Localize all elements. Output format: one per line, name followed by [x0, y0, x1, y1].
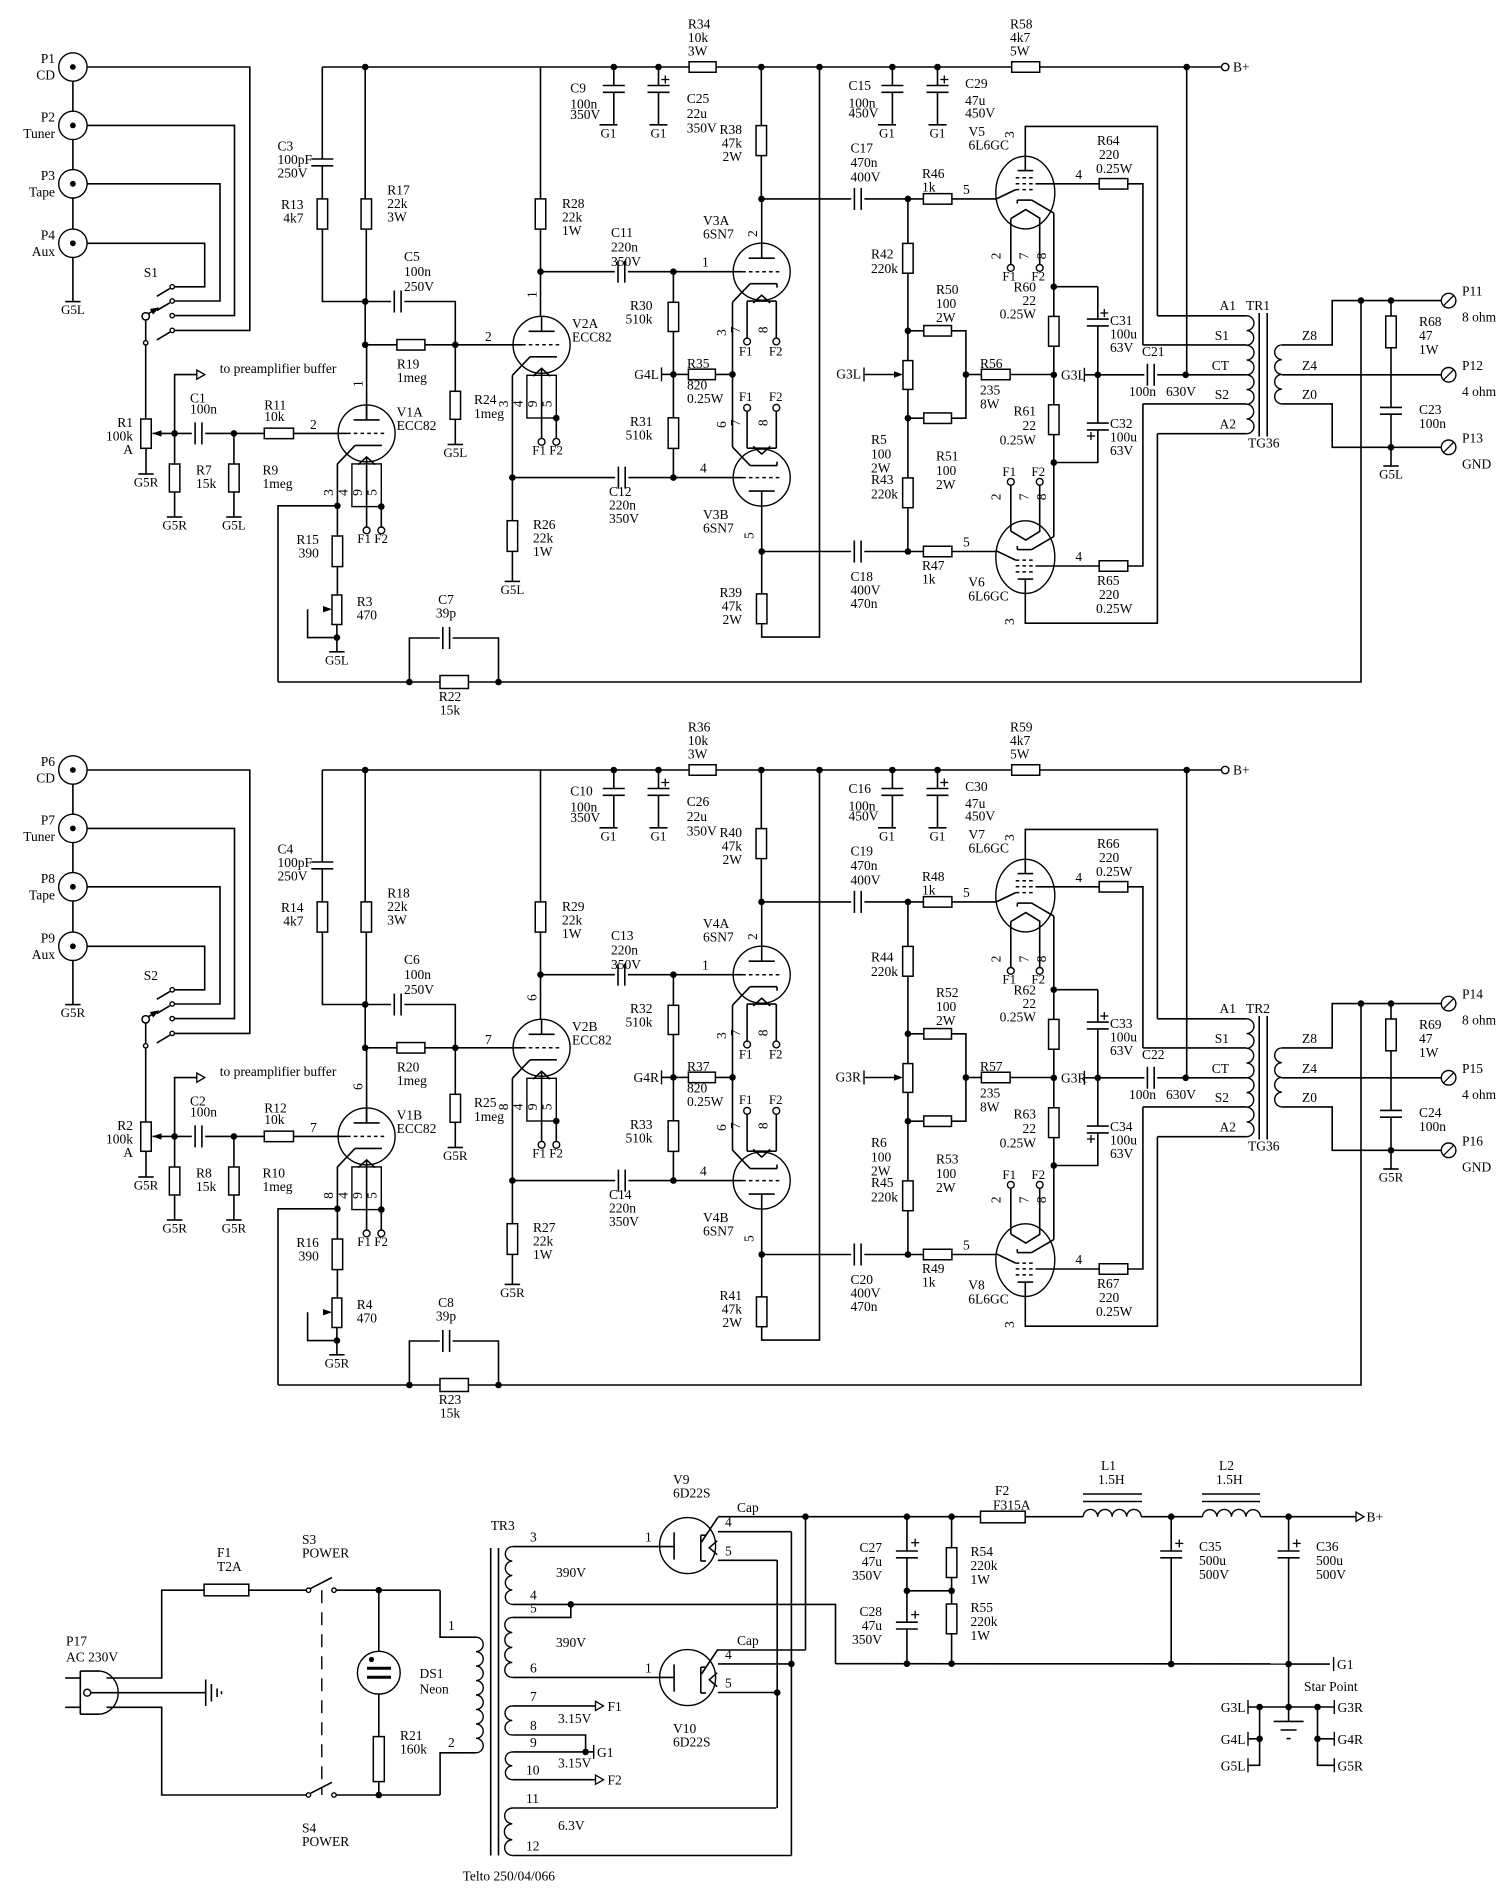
- svg-text:3: 3: [1002, 618, 1017, 625]
- tube V2B ECC82 second stage: [513, 1019, 570, 1076]
- resistor R32 510k: [672, 975, 674, 1006]
- connector P2 (Tuner input jack): [59, 111, 87, 139]
- svg-text:10k: 10k: [264, 409, 285, 424]
- svg-text:9: 9: [530, 1735, 537, 1750]
- svg-text:220: 220: [1099, 147, 1120, 162]
- svg-text:AC 230V: AC 230V: [66, 1650, 118, 1665]
- ground G5R (below volume pot): [138, 473, 153, 475]
- resistor R8 15k: [174, 1136, 176, 1167]
- junction V2 plate node: [537, 268, 544, 275]
- resistor R10 1meg: [233, 1136, 235, 1167]
- resistor R17 22k 3W: [364, 67, 366, 199]
- svg-text:7: 7: [485, 1032, 492, 1047]
- earth ground star point: [1274, 1720, 1304, 1722]
- wire plate V8 pin 3 to A2: [1025, 1137, 1157, 1327]
- svg-text:350V: 350V: [609, 511, 639, 526]
- svg-text:P16: P16: [1462, 1133, 1483, 1148]
- wire R13 bottom to C5 node: [322, 932, 365, 1004]
- capacitor C2 100n: [175, 1135, 192, 1137]
- inductor L1 1.5H choke: [1083, 1509, 1141, 1516]
- svg-text:2W: 2W: [723, 852, 743, 867]
- svg-text:C16: C16: [849, 781, 872, 796]
- resistor R59 4k7 5W: [1012, 765, 1040, 776]
- svg-text:R67: R67: [1097, 1276, 1120, 1291]
- tube V8 6L6GC lower output: [996, 1224, 1055, 1297]
- svg-text:9: 9: [525, 400, 540, 407]
- wire V10 heater 5: [718, 1692, 777, 1694]
- tube V2A ECC82 second stage: [513, 316, 570, 373]
- svg-text:8: 8: [756, 1029, 771, 1036]
- svg-text:Z0: Z0: [1302, 1090, 1317, 1105]
- svg-text:450V: 450V: [965, 106, 995, 121]
- capacitor C14 220n 350V: [512, 1180, 615, 1182]
- svg-text:220k: 220k: [871, 486, 898, 501]
- junction R19 left: [362, 342, 369, 349]
- resistor R48 1k: [923, 897, 952, 908]
- svg-text:400V: 400V: [851, 170, 881, 185]
- svg-text:Z4: Z4: [1302, 1061, 1317, 1076]
- resistor R19 1meg: [365, 344, 397, 346]
- svg-text:100n: 100n: [1419, 1119, 1446, 1134]
- svg-text:6: 6: [351, 1083, 366, 1090]
- tube V10 6D22S damper diode: [660, 1650, 716, 1706]
- svg-text:C21: C21: [1142, 344, 1165, 359]
- svg-text:ECC82: ECC82: [572, 330, 612, 345]
- svg-text:Tuner: Tuner: [23, 126, 55, 141]
- svg-text:G3L: G3L: [1061, 367, 1086, 382]
- svg-text:63V: 63V: [1110, 443, 1134, 458]
- svg-text:F1: F1: [739, 389, 753, 404]
- junction rail nodes: [362, 767, 369, 774]
- svg-text:350V: 350V: [570, 810, 600, 825]
- svg-text:2: 2: [989, 253, 1004, 260]
- svg-text:4k7: 4k7: [283, 914, 304, 929]
- svg-text:G3L: G3L: [836, 367, 861, 382]
- svg-text:P7: P7: [41, 812, 56, 827]
- svg-text:P8: P8: [41, 871, 56, 886]
- potentiometer R6 100 2W balance: [907, 1034, 909, 1064]
- svg-text:C6: C6: [404, 952, 420, 967]
- svg-text:F2: F2: [549, 442, 563, 457]
- resistor R12 10k grid stopper: [234, 1135, 264, 1137]
- capacitor C17 470n 400V: [762, 198, 852, 200]
- resistor R26 22k 1W: [511, 478, 513, 521]
- junction V3A plate node: [758, 899, 765, 906]
- svg-text:S1: S1: [1215, 1031, 1229, 1046]
- heater V1 pins 4 9 5: [352, 1167, 381, 1210]
- wire plate V7 pin 3 to A1: [1025, 829, 1157, 1018]
- wire cathodes tie V3A-V3B: [732, 302, 734, 447]
- svg-text:6L6GC: 6L6GC: [969, 841, 1010, 856]
- svg-text:100: 100: [936, 999, 957, 1014]
- resistor R49 1k: [923, 1249, 952, 1260]
- resistor R61 22 0.25W: [1053, 375, 1055, 405]
- svg-text:1meg: 1meg: [263, 476, 293, 491]
- svg-text:1meg: 1meg: [263, 1179, 293, 1194]
- wire V9 top cap: [702, 1517, 718, 1542]
- svg-text:Z4: Z4: [1302, 358, 1317, 373]
- resistor R56 235 8W: [966, 374, 982, 376]
- svg-text:P2: P2: [41, 109, 55, 124]
- svg-text:1W: 1W: [562, 223, 582, 238]
- tube V9 6D22S damper diode: [660, 1518, 716, 1574]
- resistor R30 510k: [672, 272, 674, 303]
- junction HT center tap: [568, 1601, 575, 1608]
- svg-text:1k: 1k: [922, 180, 936, 195]
- svg-text:10k: 10k: [264, 1112, 285, 1127]
- svg-text:3W: 3W: [688, 747, 708, 762]
- junction C31-C32 node: [1095, 372, 1102, 379]
- capacitor C33 100u 63V polarized: [1054, 989, 1098, 991]
- svg-text:S2: S2: [1215, 387, 1229, 402]
- svg-text:C13: C13: [611, 928, 634, 943]
- svg-text:470n: 470n: [851, 596, 878, 611]
- svg-text:630V: 630V: [1166, 1087, 1196, 1102]
- capacitor C26 22u 350V polarized: [658, 770, 660, 789]
- capacitor C24 100n zobel: [1380, 1109, 1402, 1111]
- svg-text:G5L: G5L: [443, 445, 467, 460]
- svg-text:G1: G1: [1337, 1657, 1354, 1672]
- svg-text:F1: F1: [739, 343, 753, 358]
- resistor R35 820: [673, 373, 688, 375]
- svg-text:6SN7: 6SN7: [703, 1224, 734, 1239]
- junction R50 node: [905, 1031, 912, 1038]
- wire cathode V5 pin 8: [1053, 213, 1055, 287]
- svg-text:R66: R66: [1097, 836, 1120, 851]
- svg-text:CT: CT: [1212, 358, 1230, 373]
- svg-text:P11: P11: [1462, 284, 1483, 299]
- svg-text:to preamplifier buffer: to preamplifier buffer: [220, 1064, 337, 1079]
- wire Z0: [1282, 404, 1442, 447]
- svg-text:1W: 1W: [1419, 342, 1439, 357]
- svg-text:250V: 250V: [278, 869, 308, 884]
- svg-text:R63: R63: [1013, 1107, 1036, 1122]
- resistor R27 22k 1W: [511, 1181, 513, 1224]
- terminal B+: [1187, 66, 1222, 68]
- svg-text:1.5H: 1.5H: [1216, 1472, 1243, 1487]
- svg-text:63V: 63V: [1110, 1043, 1134, 1058]
- svg-text:TG36: TG36: [1248, 1139, 1280, 1154]
- wire S2: [1143, 1106, 1247, 1108]
- heater V4B pins 7 8: [747, 1150, 776, 1152]
- ground G5R: [448, 1147, 463, 1149]
- connector P4 (Aux input jack): [59, 229, 87, 257]
- switch link dashed: [321, 1590, 323, 1795]
- svg-text:F1: F1: [1002, 1167, 1016, 1182]
- wire cathode V6 pin 8: [1053, 463, 1055, 537]
- svg-text:350V: 350V: [570, 107, 600, 122]
- capacitor C10 100n 350V: [613, 770, 615, 789]
- wire Z8: [1282, 301, 1442, 345]
- svg-text:P4: P4: [41, 227, 56, 242]
- connector P3 (Tape input jack): [59, 170, 87, 198]
- svg-text:B+: B+: [1233, 763, 1250, 778]
- svg-text:7: 7: [530, 1689, 537, 1704]
- junction G3L: [1256, 1704, 1263, 1711]
- svg-text:4 ohm: 4 ohm: [1462, 384, 1497, 399]
- svg-text:22: 22: [1023, 418, 1037, 433]
- net label G1 (C29): [929, 827, 947, 829]
- ground G5R: [1390, 1150, 1392, 1169]
- svg-text:5: 5: [540, 400, 555, 407]
- connector P7 (Tuner input jack): [59, 814, 87, 842]
- svg-text:100: 100: [936, 463, 957, 478]
- junction C27 top: [904, 1513, 911, 1520]
- svg-text:8 ohm: 8 ohm: [1462, 1013, 1497, 1028]
- svg-text:P9: P9: [41, 930, 56, 945]
- wire A2: [1157, 433, 1246, 435]
- resistor R40 47k 2W: [760, 770, 762, 829]
- junction phase splitter cathode tie: [729, 371, 736, 378]
- resistor R24 1meg: [454, 345, 456, 392]
- svg-text:5: 5: [530, 1600, 537, 1615]
- junction CT node: [1182, 1075, 1189, 1082]
- svg-text:C25: C25: [687, 91, 710, 106]
- svg-text:R53: R53: [936, 1151, 959, 1166]
- wire to TR3 pin 1: [440, 1590, 469, 1637]
- junction pot wiper tie: [334, 634, 341, 641]
- wire raw B+ rail: [806, 1516, 981, 1518]
- svg-text:6SN7: 6SN7: [703, 227, 734, 242]
- junction R56 left: [963, 371, 970, 378]
- junction neon top: [376, 1587, 383, 1594]
- svg-text:470n: 470n: [851, 858, 878, 873]
- svg-text:R54: R54: [971, 1544, 994, 1559]
- svg-text:R57: R57: [980, 1059, 1003, 1074]
- svg-text:P6: P6: [41, 754, 56, 769]
- capacitor C25 22u 350V polarized: [658, 67, 660, 86]
- potentiometer R2 100k volume: [141, 1122, 152, 1151]
- resistor R22 15k feedback: [409, 681, 440, 683]
- svg-text:C24: C24: [1419, 1105, 1442, 1120]
- svg-text:350V: 350V: [687, 824, 717, 839]
- resistor R34 10k 3W: [689, 62, 716, 73]
- svg-text:Z8: Z8: [1302, 1031, 1317, 1046]
- svg-text:C28: C28: [859, 1604, 882, 1619]
- svg-text:15k: 15k: [440, 703, 461, 718]
- svg-text:0.25W: 0.25W: [1000, 433, 1037, 448]
- svg-text:Neon: Neon: [420, 1682, 449, 1697]
- wire B+ rail: [322, 66, 1186, 68]
- svg-text:G4R: G4R: [1338, 1732, 1364, 1747]
- junction R51 node: [905, 415, 912, 422]
- resistor R57 235 8W: [966, 1077, 982, 1079]
- svg-text:6: 6: [714, 421, 729, 428]
- svg-text:F2: F2: [769, 343, 783, 358]
- svg-text:3: 3: [714, 329, 729, 336]
- junction V3B plate node: [758, 1251, 765, 1258]
- svg-text:350V: 350V: [852, 1632, 882, 1647]
- wire star point drop: [1288, 1664, 1290, 1707]
- junction G3 node: [1051, 372, 1058, 379]
- capacitor C11 220n 350V: [541, 271, 615, 273]
- svg-text:5W: 5W: [1010, 44, 1030, 59]
- terminal P13 GND: [1441, 440, 1456, 455]
- svg-text:G5R: G5R: [162, 518, 187, 533]
- svg-text:47u: 47u: [862, 1618, 883, 1633]
- svg-text:1.5H: 1.5H: [1098, 1472, 1125, 1487]
- svg-text:Z8: Z8: [1302, 328, 1317, 343]
- resistor R18 22k 3W: [364, 770, 366, 902]
- junction cathode node: [334, 503, 341, 510]
- svg-text:1k: 1k: [922, 883, 936, 898]
- net label G5R: [1333, 1758, 1335, 1772]
- ground G5L: [329, 651, 344, 653]
- svg-text:100n: 100n: [190, 402, 217, 417]
- svg-text:2W: 2W: [936, 477, 956, 492]
- svg-text:2W: 2W: [723, 1315, 743, 1330]
- wire Z4: [1282, 374, 1442, 376]
- svg-text:P14: P14: [1462, 987, 1483, 1002]
- potentiometer R4 470 bias trim: [332, 1298, 342, 1328]
- svg-text:F2: F2: [608, 1773, 622, 1788]
- capacitor C16 100n 450V: [891, 770, 893, 789]
- wire B+ to center tap: [1186, 770, 1188, 1078]
- svg-text:C29: C29: [965, 76, 988, 91]
- capacitor C30 47u 450V polarized: [937, 770, 939, 789]
- wire P9 to selector: [87, 946, 205, 990]
- svg-text:47u: 47u: [862, 1554, 883, 1569]
- net label G1 (C25): [650, 827, 668, 829]
- svg-text:63V: 63V: [1110, 1146, 1134, 1161]
- svg-text:3: 3: [1002, 834, 1017, 841]
- resistor R46 1k: [923, 194, 952, 205]
- svg-text:TR3: TR3: [491, 1518, 515, 1533]
- wire plate V3B pin 5: [761, 506, 763, 551]
- svg-text:P3: P3: [41, 168, 56, 183]
- svg-text:100: 100: [871, 446, 892, 461]
- junction C31-C32 node: [1095, 1075, 1102, 1082]
- svg-text:1W: 1W: [533, 544, 553, 559]
- earth ground symbol: [91, 1692, 206, 1694]
- svg-text:R55: R55: [971, 1600, 994, 1615]
- svg-text:F2: F2: [374, 531, 388, 546]
- junction V2 cathode node: [509, 474, 516, 481]
- svg-text:G4R: G4R: [633, 1070, 659, 1085]
- svg-text:Telto 250/04/066: Telto 250/04/066: [463, 1869, 556, 1884]
- svg-text:100: 100: [871, 1149, 892, 1164]
- svg-text:100n: 100n: [404, 264, 431, 279]
- svg-text:2: 2: [745, 933, 760, 940]
- svg-text:CD: CD: [36, 771, 55, 786]
- junction phase splitter cathode tie: [729, 1074, 736, 1081]
- svg-text:2W: 2W: [936, 1013, 956, 1028]
- wire P2 to selector: [87, 125, 234, 315]
- wire plate V4B pin 5: [761, 1209, 763, 1254]
- ground G5L (below input jacks): [72, 258, 74, 302]
- svg-text:220k: 220k: [971, 1558, 998, 1573]
- svg-text:4: 4: [700, 461, 707, 476]
- capacitor C32 100u 63V polarized: [1097, 375, 1099, 423]
- junction ground rail nodes: [904, 1660, 911, 1667]
- svg-text:C26: C26: [687, 794, 710, 809]
- ground G5L: [1390, 447, 1392, 466]
- junction heater CT: [582, 1749, 589, 1756]
- svg-text:2W: 2W: [723, 612, 743, 627]
- svg-text:Tape: Tape: [29, 184, 55, 199]
- junction speaker nodes: [1358, 297, 1365, 304]
- svg-text:6L6GC: 6L6GC: [969, 138, 1010, 153]
- resistor R68 47 1W zobel: [1390, 301, 1392, 316]
- TR3 winding 7-8 3.15V: [505, 1706, 512, 1735]
- svg-text:R64: R64: [1097, 133, 1120, 148]
- connector P8 (Tape input jack): [59, 873, 87, 901]
- tube V3B 6SN7 phase splitter lower: [733, 449, 790, 506]
- svg-text:0.25W: 0.25W: [687, 1094, 724, 1109]
- inductor L2 1.5H choke: [1203, 1509, 1261, 1516]
- capacitor C9 100n 350V: [613, 67, 615, 86]
- svg-text:G5L: G5L: [222, 518, 246, 533]
- junction feedback shunt: [406, 679, 413, 686]
- svg-text:5: 5: [742, 532, 757, 539]
- svg-text:S2: S2: [144, 968, 158, 983]
- svg-text:C5: C5: [404, 249, 420, 264]
- svg-text:Tape: Tape: [29, 887, 55, 902]
- svg-text:G1: G1: [879, 125, 895, 140]
- resistor R43 220k: [907, 418, 909, 478]
- svg-text:510k: 510k: [626, 428, 653, 443]
- svg-text:220k: 220k: [871, 261, 898, 276]
- svg-text:C10: C10: [570, 784, 593, 799]
- wire V9 heater 4: [718, 1531, 792, 1533]
- wire HT center tap to ground rail: [571, 1604, 836, 1663]
- wire P4 to selector: [87, 243, 205, 286]
- svg-text:G5R: G5R: [162, 1221, 187, 1236]
- svg-text:A1: A1: [1220, 1001, 1237, 1016]
- svg-text:7: 7: [1016, 493, 1031, 500]
- capacitor C19 470n 400V: [762, 901, 852, 903]
- svg-text:R24: R24: [474, 392, 497, 407]
- wire heaters 5 to pin 11: [776, 1560, 778, 1808]
- ground G5R: [505, 1283, 520, 1285]
- wire jack chain: [72, 81, 74, 111]
- svg-text:G5R: G5R: [134, 1178, 159, 1193]
- svg-text:3W: 3W: [387, 913, 407, 928]
- svg-text:220: 220: [1099, 587, 1120, 602]
- capacitor C36 500u 500V polarized: [1288, 1517, 1290, 1551]
- svg-text:P12: P12: [1462, 358, 1483, 373]
- wire mains prongs: [65, 1677, 80, 1679]
- svg-text:100n: 100n: [1419, 416, 1446, 431]
- svg-text:R6: R6: [871, 1135, 887, 1150]
- svg-text:P1: P1: [41, 51, 55, 66]
- svg-text:470n: 470n: [851, 155, 878, 170]
- svg-text:1k: 1k: [922, 572, 936, 587]
- svg-text:235: 235: [980, 383, 1001, 398]
- svg-text:220: 220: [1099, 850, 1120, 865]
- capacitor C31 100u 63V polarized: [1054, 286, 1098, 288]
- svg-text:7: 7: [1016, 955, 1031, 962]
- svg-text:G5L: G5L: [1379, 467, 1403, 482]
- heater V3A pins 7 8: [747, 300, 776, 302]
- svg-text:T2A: T2A: [217, 1559, 242, 1574]
- lamp DS1 neon: [378, 1590, 380, 1651]
- connector P17 mains plug: [79, 1671, 81, 1714]
- capacitor C27 47u 350V polarized: [906, 1517, 908, 1551]
- wire P6 to selector: [87, 770, 250, 1033]
- wire R13 bottom to C5 node: [322, 229, 365, 301]
- heater V2 pins 4 9 5: [527, 1078, 556, 1121]
- svg-text:63V: 63V: [1110, 340, 1134, 355]
- svg-text:F1: F1: [608, 1699, 622, 1714]
- svg-text:R42: R42: [871, 247, 894, 262]
- svg-text:8: 8: [1034, 493, 1049, 500]
- primary winding: [1247, 316, 1254, 434]
- svg-text:1W: 1W: [971, 1628, 991, 1643]
- wire heaters 4 to pin 12: [790, 1532, 792, 1856]
- svg-text:F2: F2: [1031, 1167, 1045, 1182]
- svg-text:100: 100: [936, 1166, 957, 1181]
